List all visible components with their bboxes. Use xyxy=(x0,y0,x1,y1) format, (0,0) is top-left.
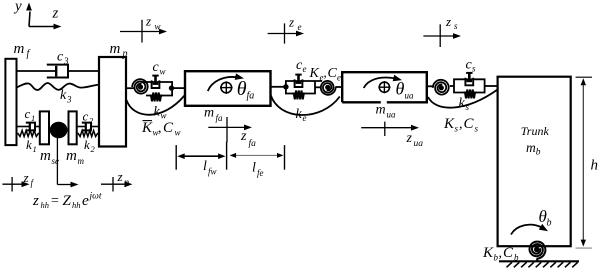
axis z_f (fingers coordinate) xyxy=(2,170,34,192)
svg-text:l: l xyxy=(203,159,207,174)
svg-text:K: K xyxy=(309,66,320,81)
svg-text:θ: θ xyxy=(237,78,247,100)
svg-text:k: k xyxy=(60,88,67,103)
svg-text:w: w xyxy=(175,128,181,138)
label Kw, Cw xyxy=(141,120,181,138)
spring k3 xyxy=(17,83,100,90)
label Ke, Ce xyxy=(309,65,342,83)
wire wrist to forearm xyxy=(172,87,185,89)
axis z_s (shoulder coordinate) xyxy=(423,14,461,47)
damper c1 xyxy=(17,106,40,130)
svg-text:m: m xyxy=(204,106,214,121)
elbow damper-spring box xyxy=(286,81,322,94)
wire shoulder to trunk xyxy=(485,85,498,87)
svg-text:fa: fa xyxy=(216,113,224,123)
wire upper arm to shoulder spiral xyxy=(428,85,434,87)
svg-text:K: K xyxy=(443,116,455,132)
svg-text:,: , xyxy=(324,65,327,80)
svg-text:m: m xyxy=(78,156,85,166)
svg-text:m: m xyxy=(526,140,536,155)
label Kb, Cb xyxy=(482,245,519,263)
rotation arrow theta_ua xyxy=(364,75,414,101)
CG symbol upper arm xyxy=(378,81,390,93)
axis z_e (elbow coordinate) xyxy=(268,15,304,44)
svg-text:ua: ua xyxy=(414,139,424,149)
axis z_p (palm coordinate) xyxy=(101,169,133,192)
svg-text:z: z xyxy=(32,193,39,209)
wire forearm to elbow node xyxy=(271,86,287,88)
damper c2 xyxy=(77,109,99,131)
link bar m_fa (forearm) xyxy=(185,71,271,123)
axis z_w (wrist coordinate) xyxy=(120,14,167,43)
svg-text:z: z xyxy=(117,169,123,184)
dimension ticks xyxy=(176,142,284,170)
svg-text:p: p xyxy=(122,49,128,60)
svg-text:θ: θ xyxy=(396,79,405,99)
svg-text:c: c xyxy=(83,109,89,124)
dimension l_fw xyxy=(177,153,225,176)
svg-text:z: z xyxy=(288,15,294,30)
svg-text:b: b xyxy=(536,148,541,158)
dimension h (trunk height) xyxy=(576,77,599,248)
damper c3 xyxy=(17,50,100,78)
wrist damper-spring box xyxy=(141,82,173,96)
trunk base torsional spring spiral xyxy=(530,242,546,262)
svg-text:,: , xyxy=(499,246,503,261)
svg-text:s: s xyxy=(472,64,476,74)
svg-text:fa: fa xyxy=(247,91,255,102)
elbow joint curve (arc under joint) xyxy=(271,95,340,116)
svg-text:ua: ua xyxy=(387,110,397,120)
elbow torsional spring spiral xyxy=(321,81,336,95)
svg-text:C: C xyxy=(464,116,475,132)
svg-text:ua: ua xyxy=(405,91,415,101)
svg-text:e: e xyxy=(298,22,302,32)
svg-text:Z: Z xyxy=(63,193,72,209)
wire palm to wrist spiral xyxy=(126,87,134,89)
svg-text:z: z xyxy=(23,170,29,185)
mass m_b trunk body xyxy=(498,77,571,247)
svg-text:fw: fw xyxy=(208,167,217,177)
svg-text:1: 1 xyxy=(31,113,35,123)
svg-text:1: 1 xyxy=(33,144,37,154)
svg-text:l: l xyxy=(252,161,256,176)
svg-text:s: s xyxy=(466,102,470,112)
svg-text:h: h xyxy=(591,158,599,174)
svg-text:K: K xyxy=(482,245,494,261)
svg-text:z: z xyxy=(240,129,247,144)
svg-text:e: e xyxy=(303,64,307,74)
svg-text:p: p xyxy=(124,177,130,187)
handle (vibrating handle mass, filled ellipse) xyxy=(50,122,68,139)
svg-text:C: C xyxy=(163,120,174,136)
svg-text:s: s xyxy=(454,21,458,31)
wire elbow to upper arm xyxy=(335,86,341,88)
svg-text:,: , xyxy=(158,121,162,136)
CG symbol forearm (circle-plus) xyxy=(220,81,233,94)
svg-text:fe: fe xyxy=(257,168,264,178)
damper c_s xyxy=(465,73,473,85)
mass m_m (right handle contact block) xyxy=(66,111,85,166)
wrist torsional spring spiral xyxy=(132,79,148,93)
svg-text:b: b xyxy=(547,218,552,229)
svg-text:=: = xyxy=(51,194,59,209)
svg-text:m: m xyxy=(40,148,51,164)
spring k_s xyxy=(464,90,477,99)
spring k_e xyxy=(292,91,305,100)
svg-text:m: m xyxy=(110,41,121,57)
ground hatching xyxy=(507,262,578,267)
svg-text:,: , xyxy=(459,117,463,132)
svg-text:c: c xyxy=(25,106,31,121)
svg-text:hh: hh xyxy=(72,200,81,210)
axis z_ua (upper arm coordinate) xyxy=(361,122,423,149)
node wrist output xyxy=(169,85,174,90)
shoulder joint curve (arc under joint) xyxy=(428,90,498,108)
svg-text:jωt: jωt xyxy=(88,192,102,202)
handle excitation axis arrow xyxy=(57,138,78,187)
svg-text:c: c xyxy=(153,60,160,75)
svg-text:e: e xyxy=(82,193,89,209)
spring k_w xyxy=(150,93,163,102)
svg-text:z: z xyxy=(145,14,151,29)
label Ks, Cs xyxy=(443,116,479,134)
svg-text:z: z xyxy=(406,131,413,146)
wrist joint curve (arc under joint) xyxy=(127,96,185,115)
svg-text:y: y xyxy=(13,0,22,15)
svg-text:K: K xyxy=(141,120,153,136)
mass m_f (fingers plate) xyxy=(5,41,30,145)
rotation arrow theta_fa xyxy=(208,73,254,101)
svg-text:w: w xyxy=(160,67,166,77)
svg-text:3: 3 xyxy=(63,56,69,66)
spring k1 xyxy=(17,131,40,137)
svg-text:k: k xyxy=(84,137,90,152)
svg-text:s: s xyxy=(475,124,479,134)
svg-text:m: m xyxy=(66,148,77,164)
svg-text:k: k xyxy=(154,105,161,120)
svg-text:c: c xyxy=(57,50,64,65)
damper c_w xyxy=(152,76,160,88)
mass m_se (left handle contact block) xyxy=(40,111,59,166)
ground line xyxy=(499,260,579,262)
svg-text:z: z xyxy=(52,6,59,22)
axis z_fa (forearm coordinate) xyxy=(208,117,256,149)
spring k2 xyxy=(77,131,99,137)
svg-text:m: m xyxy=(376,103,386,118)
excitation equation z_hh = Z_hh e^jwt xyxy=(32,192,102,211)
svg-text:w: w xyxy=(155,22,161,32)
dimension l_fe xyxy=(230,153,284,178)
axis frame y-z (global coordinates) xyxy=(13,0,62,29)
svg-text:s: s xyxy=(455,124,459,134)
svg-text:e: e xyxy=(337,73,341,83)
svg-text:hh: hh xyxy=(41,200,50,210)
svg-text:C: C xyxy=(328,66,338,81)
svg-text:z: z xyxy=(445,14,451,29)
damper c_e xyxy=(295,75,303,87)
rotation arrow theta_b xyxy=(511,207,552,235)
shoulder torsional spring spiral xyxy=(433,80,449,95)
svg-text:C: C xyxy=(503,245,514,261)
shoulder damper-spring box xyxy=(450,85,454,87)
svg-text:m: m xyxy=(14,41,25,57)
svg-text:Trunk: Trunk xyxy=(521,124,550,138)
mass m_p (palm plate) xyxy=(99,41,128,147)
svg-text:3: 3 xyxy=(66,95,72,105)
node elbow input xyxy=(283,84,288,89)
link bar m_ua (upper arm) xyxy=(342,72,427,119)
svg-text:k: k xyxy=(459,96,466,111)
svg-text:fa: fa xyxy=(249,138,257,149)
svg-text:k: k xyxy=(26,137,32,152)
